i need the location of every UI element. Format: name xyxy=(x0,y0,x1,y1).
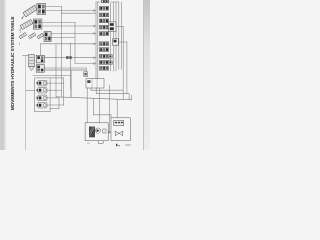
svg-text:MOVEMENTS HYDRAULIC SYSTEM TAB: MOVEMENTS HYDRAULIC SYSTEM TABLE xyxy=(10,16,16,111)
